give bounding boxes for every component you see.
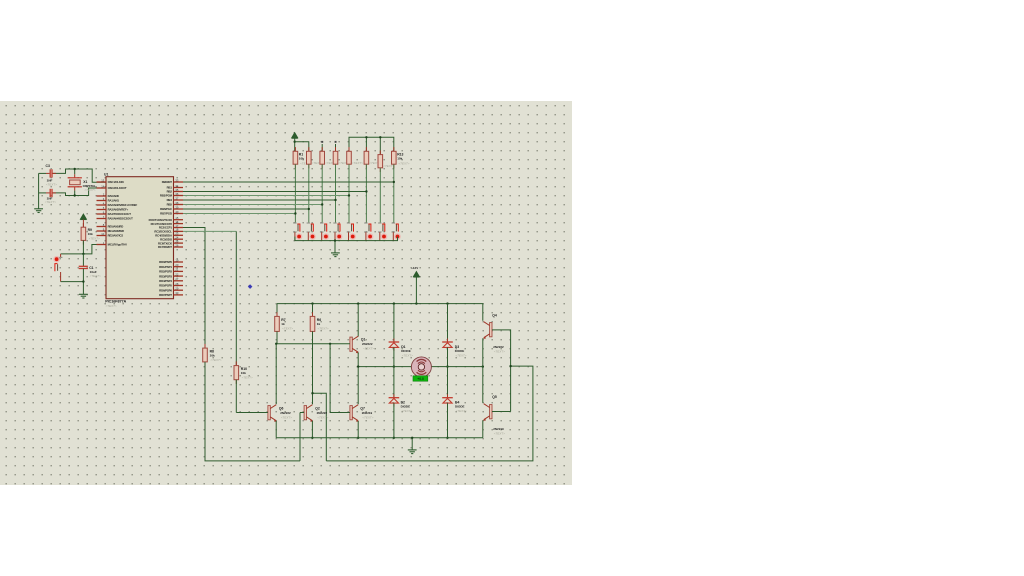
wire Q2 base bbox=[300, 412, 304, 414]
wire (stub col4) bbox=[335, 144, 337, 151]
pin 3 RA1/AN1 bbox=[97, 200, 107, 202]
wire Q7 base bbox=[330, 344, 350, 413]
wire RB fan bbox=[183, 199, 336, 201]
resistor array col7 bbox=[379, 150, 381, 154]
wire RC3 to R10 bbox=[183, 230, 236, 232]
pin 29 RD6/PSP6 bbox=[174, 289, 184, 291]
wire bbox=[321, 164, 323, 222]
wire bbox=[348, 164, 350, 222]
pin 14 OSC2/CLKOUT bbox=[97, 187, 107, 189]
wire bbox=[393, 304, 395, 342]
resistor R6 bbox=[312, 304, 314, 317]
pin 5 RA3/AN3/VREF+ bbox=[97, 209, 107, 211]
wire Q1 emitter col bbox=[357, 352, 359, 404]
pin 36 RB3/PGM bbox=[174, 195, 184, 197]
svg-text:RA2/AN2/VREF-/CVREF: RA2/AN2/VREF-/CVREF bbox=[108, 203, 138, 207]
wire bbox=[205, 362, 300, 461]
wire Q2 base riser bbox=[299, 413, 301, 461]
svg-text:33: 33 bbox=[175, 178, 178, 182]
svg-text:21: 21 bbox=[175, 268, 178, 272]
svg-text:<TEXT>: <TEXT> bbox=[46, 183, 57, 187]
svg-text:10k: 10k bbox=[88, 232, 93, 236]
svg-text:RB6/PGC: RB6/PGC bbox=[160, 207, 172, 211]
wire bbox=[348, 221, 350, 224]
pin 23 RC4/SDI/SDA bbox=[174, 234, 184, 236]
pin 13 OSC1/CLKIN bbox=[97, 181, 107, 183]
svg-text:10: 10 bbox=[101, 232, 104, 236]
resistor array col1 bbox=[294, 147, 296, 151]
svg-text:38: 38 bbox=[175, 201, 178, 205]
transistor Q4 bbox=[490, 323, 492, 337]
svg-text:<TEXT>: <TEXT> bbox=[318, 327, 329, 331]
wire bbox=[321, 221, 323, 224]
svg-text:RB5: RB5 bbox=[167, 203, 173, 207]
pin 30 RD7/PSP7 bbox=[174, 294, 184, 296]
pin 20 RD1/PSP1 bbox=[174, 266, 184, 268]
pin 27 RD4/PSP4 bbox=[174, 280, 184, 282]
pin 26 RC7/RX/DT bbox=[174, 246, 184, 248]
svg-text:RE0/AN5/RD: RE0/AN5/RD bbox=[108, 225, 124, 229]
svg-text:RA5/AN4/SS/C2OUT: RA5/AN4/SS/C2OUT bbox=[108, 217, 134, 221]
pin 1 MCLR/Vpp/THV bbox=[97, 244, 107, 246]
transistor Q2 bbox=[304, 406, 306, 420]
wire bbox=[82, 240, 84, 254]
pin 28 RD5/PSP5 bbox=[174, 285, 184, 287]
crystal X1 bbox=[74, 169, 76, 174]
wire RB fan bbox=[183, 213, 295, 215]
wire RB fan bbox=[183, 204, 322, 206]
svg-text:+12V: +12V bbox=[411, 266, 418, 270]
svg-text:<TEXT>: <TEXT> bbox=[89, 237, 100, 241]
wire Q2 emitter bbox=[311, 421, 313, 438]
resistor array col5 bbox=[348, 147, 350, 151]
svg-text:MCLR/Vpp/THV: MCLR/Vpp/THV bbox=[108, 243, 128, 247]
svg-text:Q1: Q1 bbox=[361, 337, 366, 341]
svg-text:RD3/PSP3: RD3/PSP3 bbox=[159, 274, 172, 278]
wire bbox=[294, 164, 296, 222]
wire bbox=[276, 331, 278, 343]
svg-text:RD0/PSP0: RD0/PSP0 bbox=[159, 260, 172, 264]
pin 8 RE0/AN5/RD bbox=[97, 226, 107, 228]
wire top rail bbox=[277, 304, 483, 321]
svg-text:<TEXT>: <TEXT> bbox=[210, 358, 221, 362]
pin 33 RB0/INT bbox=[174, 181, 184, 183]
svg-text:<TEXT>: <TEXT> bbox=[45, 200, 56, 204]
svg-text:1k: 1k bbox=[281, 322, 285, 326]
svg-text:<TEXT>: <TEXT> bbox=[317, 416, 328, 420]
svg-text:10k: 10k bbox=[299, 157, 304, 161]
resistor array col4 bbox=[335, 147, 337, 151]
resistor R7 bbox=[276, 304, 278, 317]
power arrow (array) bbox=[292, 133, 298, 138]
svg-text:RD1/PSP1: RD1/PSP1 bbox=[159, 265, 172, 269]
pin 21 RD2/PSP2 bbox=[174, 270, 184, 272]
wire bbox=[39, 172, 46, 174]
wire RC2 to R8 bbox=[183, 228, 205, 349]
power arrow +12V bbox=[413, 271, 419, 276]
svg-text:2N2219: 2N2219 bbox=[362, 411, 373, 415]
wire bbox=[393, 221, 395, 224]
svg-text:35: 35 bbox=[175, 188, 178, 192]
pin 38 RB5 bbox=[174, 204, 184, 206]
svg-text:RD2/PSP2: RD2/PSP2 bbox=[159, 270, 172, 274]
svg-text:<TEXT>: <TEXT> bbox=[456, 409, 467, 413]
svg-text:<TEXT>: <TEXT> bbox=[494, 431, 505, 435]
pin 4 RA2/AN2/VREF-/CVREF bbox=[97, 204, 107, 206]
wire button gnd rail bbox=[295, 237, 398, 241]
svg-text:<TEXT>: <TEXT> bbox=[362, 416, 373, 420]
capacitor C3 bbox=[46, 172, 50, 174]
svg-text:36: 36 bbox=[175, 192, 178, 196]
svg-text:OSC1/CLKIN: OSC1/CLKIN bbox=[108, 180, 124, 184]
ground (C1) bbox=[79, 293, 88, 295]
svg-text:10k: 10k bbox=[397, 157, 402, 161]
pin 15 RC0/T1OSO/T1CKI bbox=[174, 219, 184, 221]
wire bbox=[61, 281, 84, 283]
svg-text:25: 25 bbox=[175, 239, 178, 243]
resistor R10 bbox=[235, 361, 237, 365]
wire top rail cols5-8 bbox=[349, 137, 394, 151]
pin 10 RE2/AN7/CS bbox=[97, 235, 107, 237]
wire bbox=[335, 164, 337, 222]
svg-text:16: 16 bbox=[175, 220, 178, 224]
wire bbox=[38, 173, 40, 208]
svg-text:34: 34 bbox=[175, 184, 178, 188]
pin 19 RD0/PSP0 bbox=[174, 261, 184, 263]
svg-text:27: 27 bbox=[175, 277, 178, 281]
op: U1 PIC16F877A chip body bbox=[106, 177, 174, 299]
motor bbox=[411, 357, 431, 377]
diode D4 bbox=[447, 394, 449, 398]
svg-text:<TEXT>: <TEXT> bbox=[90, 274, 101, 278]
wire R6 branch to bottom rail bbox=[313, 393, 327, 461]
svg-text:RE1/AN6/WR: RE1/AN6/WR bbox=[108, 229, 124, 233]
svg-text:30: 30 bbox=[175, 291, 178, 295]
resistor array col3 bbox=[321, 147, 323, 151]
svg-text:15: 15 bbox=[175, 216, 178, 220]
svg-text:RA0/AN0: RA0/AN0 bbox=[108, 194, 120, 198]
resistor array col6 bbox=[365, 147, 367, 151]
svg-text:RA3/AN3/VREF+: RA3/AN3/VREF+ bbox=[108, 208, 129, 212]
pin 25 RC6/TX/CK bbox=[174, 242, 184, 244]
svg-text:28: 28 bbox=[175, 282, 178, 286]
wire bbox=[365, 164, 367, 222]
svg-text:+0.0: +0.0 bbox=[417, 377, 424, 381]
svg-text:RE2/AN7/CS: RE2/AN7/CS bbox=[108, 234, 124, 238]
push button reset bbox=[60, 254, 62, 257]
pin 16 RC1/T1OSI/CCP2 bbox=[174, 223, 184, 225]
svg-text:23: 23 bbox=[175, 232, 178, 236]
pin 40 RB7/PGD bbox=[174, 213, 184, 215]
pin 37 RB4 bbox=[174, 199, 184, 201]
svg-text:<TEXT>: <TEXT> bbox=[455, 354, 466, 358]
pin 24 RC5/SDO bbox=[174, 238, 184, 240]
svg-text:C3: C3 bbox=[46, 164, 50, 168]
wire ground rail bbox=[276, 437, 483, 439]
wire bbox=[334, 241, 336, 253]
wire bbox=[365, 137, 367, 151]
svg-text:<TEXT>: <TEXT> bbox=[494, 349, 505, 353]
wire Q7 emitter bbox=[357, 421, 359, 438]
svg-text:RD7/PSP7: RD7/PSP7 bbox=[159, 293, 172, 297]
pin 6 RA4/T0CKI/C1OUT bbox=[97, 213, 107, 215]
svg-text:10k: 10k bbox=[241, 371, 246, 375]
pin 7 RA5/AN4/SS/C2OUT bbox=[97, 218, 107, 220]
wire bbox=[39, 192, 46, 194]
svg-text:14: 14 bbox=[101, 184, 104, 188]
node origin marker bbox=[248, 284, 253, 289]
svg-text:20: 20 bbox=[175, 263, 178, 267]
diode D1 bbox=[393, 339, 395, 343]
svg-text:RB7/PGD: RB7/PGD bbox=[160, 212, 172, 216]
motor value box bbox=[413, 376, 428, 381]
wire R6 down to Q2 collector bbox=[312, 331, 314, 404]
wire (stub col3) bbox=[321, 144, 323, 151]
svg-text:17: 17 bbox=[175, 224, 178, 228]
wire bbox=[53, 188, 106, 196]
wire bbox=[379, 137, 381, 154]
resistor R9 bbox=[82, 223, 84, 227]
wire bbox=[447, 403, 449, 438]
svg-text:19: 19 bbox=[175, 258, 178, 262]
ground (buttons) bbox=[331, 252, 340, 254]
wire bbox=[294, 221, 296, 224]
resistor R8 bbox=[204, 344, 206, 348]
svg-text:22: 22 bbox=[175, 272, 178, 276]
wire bbox=[357, 304, 359, 337]
svg-text:1k: 1k bbox=[317, 322, 321, 326]
ground bbox=[34, 208, 43, 210]
wire base link bbox=[326, 366, 533, 461]
wire bbox=[447, 347, 449, 397]
power arrow VCC (R9) bbox=[80, 214, 86, 219]
svg-text:<TEXT>: <TEXT> bbox=[84, 188, 95, 192]
capacitor C1 bbox=[82, 254, 84, 266]
resistor array col2 bbox=[308, 147, 310, 151]
svg-text:2N2222: 2N2222 bbox=[493, 345, 504, 349]
wire bbox=[379, 168, 381, 223]
svg-text:40: 40 bbox=[175, 210, 178, 214]
pin 17 RC2/CCP1 bbox=[174, 227, 184, 229]
svg-text:<TEXT>: <TEXT> bbox=[398, 162, 409, 166]
transistor Q1 bbox=[350, 337, 352, 351]
svg-text:2N2219: 2N2219 bbox=[493, 427, 504, 431]
wire bbox=[335, 221, 337, 224]
wire bbox=[294, 138, 296, 151]
svg-text:<TEXT>: <TEXT> bbox=[383, 164, 394, 168]
transistor Q6 bbox=[268, 406, 270, 420]
wire Q5 base bbox=[492, 411, 511, 413]
pin 35 RB2 bbox=[174, 191, 184, 193]
svg-text:10k: 10k bbox=[210, 353, 215, 357]
wire bbox=[295, 142, 309, 152]
svg-text:RB4: RB4 bbox=[167, 198, 173, 202]
transistor Q7 bbox=[350, 406, 352, 420]
ground (H-bridge) bbox=[408, 449, 417, 451]
svg-text:RD4/PSP4: RD4/PSP4 bbox=[159, 279, 172, 283]
svg-text:2N2222: 2N2222 bbox=[280, 411, 291, 415]
svg-text:39: 39 bbox=[175, 205, 178, 209]
svg-text:RA1/AN1: RA1/AN1 bbox=[108, 199, 120, 203]
wire Q4 emitter/Q5 collector bbox=[482, 338, 484, 403]
wire bbox=[393, 347, 395, 397]
wire motor left bbox=[358, 366, 412, 368]
wire bbox=[53, 169, 106, 182]
wire bbox=[393, 164, 395, 222]
wire bbox=[447, 304, 449, 342]
pin 18 RC3/SCK/SCL bbox=[174, 230, 184, 232]
svg-text:Q2: Q2 bbox=[315, 406, 320, 410]
svg-text:<TEXT>: <TEXT> bbox=[242, 376, 253, 380]
wire bbox=[235, 380, 237, 413]
svg-text:2N2222: 2N2222 bbox=[362, 342, 373, 346]
svg-text:37: 37 bbox=[175, 196, 178, 200]
schematic sheet bbox=[0, 101, 572, 485]
svg-text:<TEXT>: <TEXT> bbox=[363, 347, 374, 351]
svg-text:<TEXT>: <TEXT> bbox=[106, 304, 117, 308]
wire Q6 base bbox=[236, 412, 268, 414]
svg-text:OSC2/CLKOUT: OSC2/CLKOUT bbox=[108, 186, 127, 190]
wire bbox=[308, 164, 310, 222]
svg-text:RB3/PGM: RB3/PGM bbox=[160, 194, 173, 198]
svg-text:Q7: Q7 bbox=[360, 406, 365, 410]
pin 39 RB6/PGC bbox=[174, 208, 184, 210]
wire RB fan bbox=[183, 195, 349, 197]
transistor Q5 bbox=[490, 405, 492, 419]
svg-text:RD6/PSP6: RD6/PSP6 bbox=[159, 288, 172, 292]
diode D2 bbox=[393, 394, 395, 398]
svg-text:Q4: Q4 bbox=[492, 313, 497, 317]
wire bbox=[308, 221, 310, 224]
pin 9 RE1/AN6/WR bbox=[97, 230, 107, 232]
svg-text:<TEXT>: <TEXT> bbox=[401, 409, 412, 413]
svg-text:RD5/PSP5: RD5/PSP5 bbox=[159, 284, 172, 288]
svg-text:RB0/INT: RB0/INT bbox=[162, 180, 173, 184]
pin 22 RD3/PSP3 bbox=[174, 275, 184, 277]
svg-text:24: 24 bbox=[175, 236, 178, 240]
svg-text:RC7/RX/DT: RC7/RX/DT bbox=[158, 245, 172, 249]
wire RB fan bbox=[183, 208, 309, 210]
pin 2 RA0/AN0 bbox=[97, 195, 107, 197]
svg-text:29: 29 bbox=[175, 287, 178, 291]
wire Q1 base bbox=[276, 343, 350, 345]
wire Q4 base bbox=[492, 330, 511, 412]
svg-text:<TEXT>: <TEXT> bbox=[281, 416, 292, 420]
pin 34 RB1 bbox=[174, 187, 184, 189]
svg-text:26: 26 bbox=[175, 243, 178, 247]
svg-text:2N2222: 2N2222 bbox=[317, 411, 328, 415]
wire Q6 emitter bbox=[275, 421, 277, 438]
svg-text:Q6: Q6 bbox=[279, 406, 284, 410]
wire bbox=[82, 220, 84, 228]
svg-text:Q5: Q5 bbox=[492, 395, 497, 399]
wire MCLR node bbox=[61, 245, 106, 254]
wire bbox=[411, 438, 413, 450]
resistor array col8 bbox=[393, 147, 395, 151]
wire RB fan bbox=[183, 191, 366, 193]
wire Q5 emitter bbox=[482, 420, 484, 438]
svg-text:<TEXT>: <TEXT> bbox=[402, 354, 413, 358]
wire motor right bbox=[431, 366, 483, 368]
wire bbox=[393, 403, 395, 438]
diode D3 bbox=[447, 339, 449, 343]
wire Q6 collector bbox=[275, 344, 277, 404]
svg-text:13: 13 bbox=[101, 178, 104, 182]
svg-text:U1: U1 bbox=[104, 173, 108, 177]
wire bbox=[379, 221, 381, 224]
svg-text:18: 18 bbox=[175, 228, 178, 232]
svg-text:<TEXT>: <TEXT> bbox=[352, 161, 363, 165]
svg-text:RA4/T0CKI/C1OUT: RA4/T0CKI/C1OUT bbox=[108, 212, 132, 216]
capacitor 1NF lower bbox=[46, 192, 50, 194]
wire bbox=[365, 221, 367, 224]
wire RB fan bbox=[183, 181, 394, 183]
svg-text:<TEXT>: <TEXT> bbox=[282, 327, 293, 331]
